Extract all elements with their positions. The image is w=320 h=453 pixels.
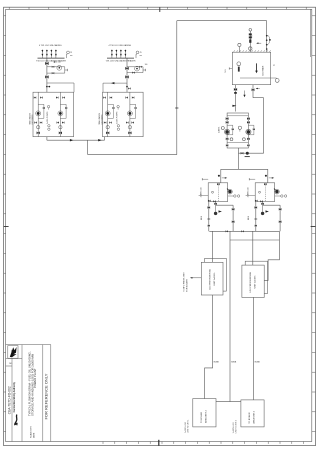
unloading group A pump box bbox=[29, 92, 74, 137]
svg-text:TO BOILER: TO BOILER bbox=[201, 411, 203, 423]
pressurising unit B bbox=[246, 169, 287, 231]
transfer pump box bbox=[227, 113, 248, 148]
title block column line 3 bbox=[42, 345, 44, 442]
flow arrow 2 on common header bbox=[98, 139, 102, 141]
transfer suction header bbox=[227, 115, 248, 117]
pump bypass loop transfer B bbox=[248, 125, 254, 135]
svg-text:FOR REFERENCE ONLY: FOR REFERENCE ONLY bbox=[44, 373, 49, 419]
breather valve stack bbox=[249, 29, 254, 53]
border centre mark top bbox=[159, 7, 161, 12]
flow arrow into pumps bbox=[232, 105, 236, 107]
wire: v feed right unit box bbox=[252, 231, 254, 265]
wire: day tank cross connection bbox=[216, 401, 241, 403]
svg-text:80NB: 80NB bbox=[214, 361, 220, 363]
gauge left of transfer box bbox=[218, 126, 224, 133]
unloading group A header bbox=[36, 44, 72, 62]
wire: unit A outlet drop bbox=[205, 295, 213, 399]
transfer pump B bbox=[246, 129, 251, 134]
loop valve transfer A bbox=[232, 128, 234, 130]
note arrow stub bbox=[190, 277, 201, 279]
svg-text:FOR BOILERS: FOR BOILERS bbox=[186, 278, 188, 291]
wire: transfer bus run bbox=[88, 154, 177, 156]
tank left nozzle stub bbox=[229, 67, 232, 69]
signature mark bbox=[15, 415, 18, 425]
svg-text:UNIT 2x100%: UNIT 2x100% bbox=[214, 273, 216, 286]
suction valves transfer B bbox=[247, 117, 250, 120]
drain stub arrow bbox=[243, 91, 245, 98]
title block top edge bbox=[6, 344, 51, 346]
pressurising unit A bbox=[199, 169, 240, 231]
title block bbox=[6, 345, 51, 442]
svg-text:80NB: 80NB bbox=[231, 361, 237, 363]
wire: spare header drop bbox=[229, 231, 231, 401]
border centre mark right bbox=[311, 226, 316, 228]
wire: overhead fill run bbox=[177, 20, 267, 22]
svg-text:POWER PLANT: POWER PLANT bbox=[33, 368, 37, 388]
CEA logo box bbox=[8, 346, 18, 359]
svg-text:UNIT 2x100%: UNIT 2x100% bbox=[255, 275, 257, 288]
unloading group B pump box bbox=[98, 92, 143, 137]
svg-text:SCALE: NTS: SCALE: NTS bbox=[30, 426, 33, 438]
wire: group B outlet drop bbox=[104, 137, 106, 141]
wire: transfer discharge bbox=[239, 148, 264, 169]
svg-text:DATE: DATE bbox=[32, 432, 35, 438]
pipe size dash bbox=[245, 156, 250, 158]
svg-text:Central Electricity Authority: Central Electricity Authority bbox=[13, 381, 16, 412]
svg-text:TO BOILER: TO BOILER bbox=[249, 412, 251, 424]
svg-text:LDO PRESSURISING: LDO PRESSURISING bbox=[209, 269, 211, 290]
discharge meter bbox=[246, 152, 249, 155]
title block row line under logo bbox=[6, 358, 22, 360]
wire: header to transfer bus bbox=[87, 140, 89, 154]
title block column line 2 bbox=[21, 345, 23, 442]
side instrument tap bbox=[271, 64, 279, 82]
tank liquid level line bbox=[240, 77, 271, 79]
transfer pump A bbox=[225, 129, 230, 134]
LDO pressurising unit B box bbox=[242, 265, 264, 297]
check valve dots on downcomer bbox=[266, 35, 268, 50]
svg-text:NO.: NO. bbox=[9, 363, 13, 365]
valve dot on bypass bbox=[269, 39, 271, 41]
wire: group A outlet drop bbox=[46, 137, 48, 141]
svg-text:2x100%: 2x100% bbox=[218, 126, 220, 133]
wire: tank outlet nozzle 2 bbox=[253, 85, 264, 154]
wire: manifold h1 bbox=[209, 230, 279, 232]
discharge valve bbox=[241, 152, 244, 155]
wire: riser to tank fill line bbox=[176, 21, 178, 155]
outlet valve 1 bbox=[234, 88, 237, 91]
title block row line under no. bbox=[6, 365, 12, 367]
bypass loop on downcomer bbox=[267, 35, 270, 44]
strainer bubble B bbox=[243, 138, 246, 141]
svg-text:LDO PRESSURISING: LDO PRESSURISING bbox=[250, 271, 252, 292]
unloading group B header bbox=[106, 44, 142, 62]
wire: unloading common header bbox=[47, 139, 105, 141]
wire: fill downcomer bbox=[266, 21, 268, 53]
LDO pressurising unit A box bbox=[201, 262, 223, 295]
level gauge pole bbox=[255, 63, 258, 73]
level instrument bubble bbox=[237, 62, 241, 72]
wire: day feed header bbox=[221, 168, 268, 170]
flange block nozzle 1 bbox=[234, 92, 237, 94]
wire: tank outlet nozzle 1 bbox=[235, 85, 237, 112]
LDO day tank B box bbox=[241, 400, 264, 427]
wire: manifold h2 bbox=[230, 239, 279, 241]
tank roof hatching bbox=[234, 50, 271, 52]
border centre mark bottom bbox=[158, 440, 160, 446]
strainer bubble A bbox=[230, 138, 233, 141]
svg-text:2x: 2x bbox=[274, 64, 276, 66]
discharge check valve B bbox=[247, 138, 250, 141]
transfer discharge header bbox=[227, 141, 248, 143]
bottom scale graduation bbox=[103, 442, 304, 444]
zone strip line top right bbox=[309, 9, 311, 57]
drain arrow at nozzle 2 bbox=[256, 88, 260, 90]
svg-text:CEA-TETD-FO-002: CEA-TETD-FO-002 bbox=[8, 386, 12, 414]
corner valve A bbox=[226, 144, 228, 146]
wire: v feed left unit box bbox=[211, 231, 213, 262]
svg-text:AREA UNIT-1: AREA UNIT-1 bbox=[205, 409, 208, 423]
svg-text:80NB: 80NB bbox=[255, 361, 261, 363]
inlet flow arrow bbox=[256, 42, 261, 44]
LDO storage tank T1 bbox=[232, 52, 270, 84]
manifold valve 1 bbox=[226, 230, 228, 232]
svg-text:LINE TO UNIT-2: LINE TO UNIT-2 bbox=[236, 420, 238, 433]
centre instrument bubble bbox=[238, 126, 241, 132]
pump bypass loop transfer A bbox=[227, 125, 233, 135]
unloading group A drop bbox=[45, 58, 74, 92]
title block column line 1 bbox=[11, 359, 13, 442]
svg-text:TO HFO PRESS. UNIT: TO HFO PRESS. UNIT bbox=[184, 271, 186, 291]
loop valve transfer B bbox=[253, 128, 255, 130]
wire: unit B outlet drop bbox=[253, 297, 255, 400]
flow arrow 1 on common header bbox=[70, 139, 74, 141]
unit A shadow box bbox=[205, 258, 227, 291]
CEA logo emblem bbox=[10, 347, 17, 357]
LDO day tank A box bbox=[193, 399, 216, 427]
corner valve B bbox=[247, 144, 249, 146]
wire: right return dogleg bbox=[264, 231, 279, 280]
tank vent nozzle bbox=[238, 43, 241, 52]
border centre mark left bbox=[4, 226, 9, 228]
svg-text:AREA UNIT-2: AREA UNIT-2 bbox=[253, 410, 256, 424]
flow dash on riser bbox=[175, 107, 178, 109]
unit B shadow box bbox=[245, 261, 267, 293]
svg-text:LDO TANK: LDO TANK bbox=[262, 65, 265, 75]
suction valves transfer A bbox=[226, 117, 229, 120]
manifold valve 2 bbox=[241, 230, 243, 232]
svg-text:LINE TO UNIT-1: LINE TO UNIT-1 bbox=[188, 420, 190, 433]
svg-text:M.S.: M.S. bbox=[225, 68, 227, 72]
unloading group B drop bbox=[103, 58, 147, 92]
outlet valve 2 bbox=[252, 88, 255, 91]
title block right edge bbox=[50, 345, 52, 442]
discharge check valve A bbox=[226, 138, 229, 141]
